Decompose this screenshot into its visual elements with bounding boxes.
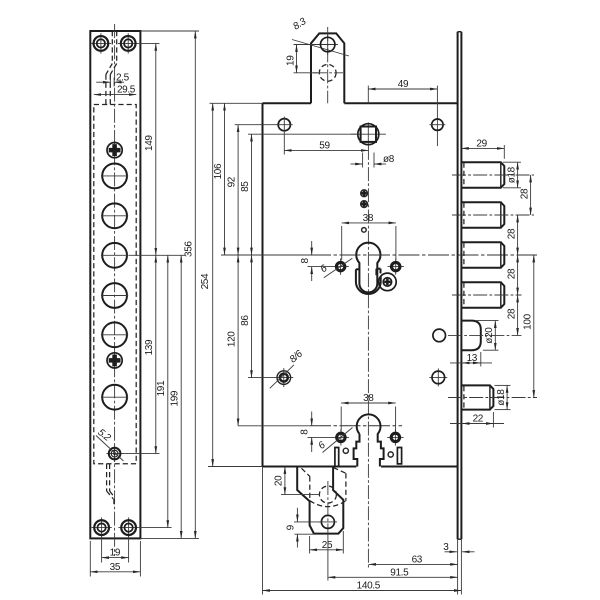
cylinder axis — [310, 254, 537, 256]
svg-text:ø8: ø8 — [383, 154, 395, 165]
phillips screw lower — [109, 354, 121, 366]
dim 86 — [251, 255, 253, 378]
dim 100 — [533, 255, 535, 398]
bottom tab hole — [321, 515, 334, 528]
svg-text:22: 22 — [473, 414, 484, 425]
leader 6 upper — [324, 258, 353, 278]
top tab outline — [311, 33, 344, 103]
lower bolt centerline — [448, 397, 537, 399]
euro cup outline — [356, 268, 360, 270]
bottom tab hidden circle — [319, 486, 336, 503]
ext line hole top-left — [235, 124, 279, 126]
svg-text:149: 149 — [144, 135, 155, 151]
top tab hidden circle — [319, 64, 336, 81]
dim 35 — [89, 541, 91, 577]
bolt 2 centerline — [452, 214, 534, 216]
svg-text:19: 19 — [285, 55, 296, 66]
dim 25 — [309, 536, 311, 554]
dim 3 — [445, 551, 457, 553]
latch bolt — [462, 321, 481, 351]
ext body left down — [262, 467, 264, 595]
ext backplate right down — [460, 539, 462, 594]
euro cylinder hole — [356, 243, 380, 293]
dim 106 — [224, 103, 226, 255]
dim dia18 upper — [503, 161, 521, 163]
svg-text:59: 59 — [319, 141, 330, 152]
lower euro hole — [354, 414, 384, 466]
screw hole bottom-left — [91, 527, 111, 529]
svg-text:ø18: ø18 — [506, 166, 517, 183]
lower euro ext left — [238, 425, 310, 427]
latch centerline — [448, 334, 522, 336]
spindle follower — [351, 133, 386, 135]
body left edge — [262, 103, 264, 466]
svg-text:29.5: 29.5 — [117, 84, 136, 95]
hole A2 — [102, 203, 127, 228]
slot right — [397, 448, 401, 464]
small hole near slot right — [388, 452, 393, 457]
svg-text:8: 8 — [300, 258, 311, 264]
ext line plate bottom — [140, 537, 199, 539]
body hole top-left — [278, 119, 290, 131]
svg-text:140.5: 140.5 — [357, 581, 381, 592]
svg-text:91.5: 91.5 — [390, 567, 409, 578]
svg-text:199: 199 — [170, 390, 181, 406]
dim 59 — [284, 149, 368, 151]
hole A3 — [102, 243, 127, 268]
small hole pair upper — [361, 191, 366, 196]
dim 49 — [367, 86, 369, 104]
ext tab hole down — [327, 530, 329, 581]
svg-text:86: 86 — [240, 315, 251, 326]
leader 6 lower — [323, 428, 353, 453]
svg-text:13: 13 — [467, 353, 478, 364]
ext backplate left down — [457, 539, 459, 594]
spindle ext line left — [248, 133, 358, 135]
dim 8 lower — [311, 412, 313, 426]
svg-text:20: 20 — [274, 475, 285, 486]
bottom tab hidden outline — [302, 468, 310, 476]
bolt 4 — [462, 282, 504, 308]
svg-text:28: 28 — [506, 228, 517, 239]
screw hole 5.2 — [106, 453, 122, 455]
hole left of latch — [433, 329, 446, 342]
dim 92 — [237, 125, 239, 255]
hole A6 — [102, 385, 127, 410]
leader 8.3 — [292, 40, 349, 57]
dim 140.5 — [263, 590, 462, 592]
dim 28 a — [530, 175, 532, 215]
dim dia18 lower — [495, 384, 511, 386]
svg-text:106: 106 — [213, 163, 224, 179]
bolt 3 — [462, 242, 504, 268]
dim 63 — [369, 563, 458, 565]
slot left — [335, 448, 339, 467]
svg-text:100: 100 — [523, 313, 534, 329]
lower euro axis — [310, 425, 402, 427]
bottom tab centerline — [327, 481, 329, 530]
faceplate vertical centerline — [114, 24, 116, 556]
body bottom ext line — [208, 466, 263, 468]
leader 8/6 — [270, 365, 294, 389]
euro ext line left — [221, 254, 310, 256]
body top edge — [263, 102, 312, 104]
svg-text:38: 38 — [363, 213, 374, 224]
hole below latch — [429, 376, 447, 378]
small hole near slot left — [343, 448, 348, 453]
leader 5.2 — [96, 436, 124, 462]
dim 38 upper — [341, 226, 343, 261]
top tab hole — [318, 44, 338, 46]
dim 9 — [294, 521, 321, 523]
svg-text:28: 28 — [519, 188, 530, 199]
body hole top-right — [432, 119, 443, 130]
svg-text:8: 8 — [300, 429, 311, 435]
svg-text:28: 28 — [506, 268, 517, 279]
hole A1 — [102, 164, 127, 189]
bottom tab outline — [297, 467, 343, 534]
ext line flank upper — [308, 266, 334, 268]
svg-text:191: 191 — [156, 380, 167, 396]
dim 28 c — [517, 255, 519, 295]
flank hole lower-right — [387, 436, 403, 438]
spindle centerline down — [367, 146, 369, 568]
ext line plate top — [140, 30, 199, 32]
dim 2.5 — [109, 78, 111, 87]
flank hole lower-left — [333, 436, 349, 438]
ext line flank lower — [308, 436, 334, 438]
faceplate outline — [90, 31, 140, 538]
svg-text:49: 49 — [398, 79, 409, 90]
top tab centerline — [327, 27, 329, 103]
faceplate bottom screw ext line — [139, 527, 172, 529]
screw hole top-left — [91, 42, 111, 44]
body top ext line — [210, 102, 263, 104]
svg-text:85: 85 — [240, 181, 251, 192]
bolt 1 centerline — [452, 174, 534, 176]
hole A4 — [102, 283, 127, 308]
dim 22 — [450, 423, 504, 425]
bottom slot hidden lines — [106, 464, 108, 491]
backplate edge view — [457, 32, 459, 540]
bolt 1 — [462, 162, 504, 188]
dim 19 bottom — [101, 536, 103, 563]
cylinder screw phillips — [384, 279, 391, 286]
dim 199 — [180, 255, 182, 538]
svg-text:92: 92 — [227, 176, 238, 187]
dim 149 — [155, 43, 157, 255]
dim 13 — [480, 352, 482, 367]
svg-text:120: 120 — [227, 331, 238, 347]
phillips screw upper — [109, 144, 121, 156]
faceplate inner dashed rectangle — [94, 105, 136, 464]
body bottom edge — [263, 466, 357, 468]
dim 29.5 — [94, 94, 136, 96]
svg-text:29: 29 — [476, 138, 487, 149]
svg-text:63: 63 — [412, 555, 423, 566]
ext line screw 5.2 — [121, 453, 160, 455]
dim 8 upper — [311, 241, 313, 255]
svg-text:9: 9 — [286, 524, 297, 530]
screw hole bottom-right — [118, 527, 138, 529]
screw hole top-right — [118, 42, 138, 44]
dim 28 d — [517, 295, 519, 335]
dim 356 — [194, 31, 196, 538]
hole A5 — [102, 322, 127, 347]
svg-text:35: 35 — [110, 562, 121, 573]
dim dia20 — [476, 320, 499, 322]
svg-text:3: 3 — [443, 542, 449, 553]
dim 19 tab — [294, 44, 320, 46]
dim 85 — [251, 134, 253, 255]
svg-text:38: 38 — [363, 393, 374, 404]
dim 29 — [503, 145, 505, 159]
hole 8/6 — [274, 377, 293, 379]
bolt 4 centerline — [452, 294, 522, 296]
dim 91.5 — [328, 576, 458, 578]
svg-text:19: 19 — [110, 548, 121, 559]
svg-text:2.5: 2.5 — [116, 73, 130, 84]
svg-text:ø18: ø18 — [496, 389, 507, 406]
bolt 2 — [462, 202, 504, 228]
svg-text:28: 28 — [506, 308, 517, 319]
ext line hole A3 — [129, 254, 186, 256]
cylinder screw boss — [379, 273, 397, 291]
lower bolt — [462, 385, 493, 409]
faceplate top screw ext line — [139, 42, 160, 44]
dim 254 — [212, 103, 214, 466]
dim 139 — [155, 255, 157, 453]
svg-text:139: 139 — [144, 339, 155, 355]
tiny hole — [362, 228, 367, 233]
ext line lower bolt tip — [492, 412, 494, 428]
dim 38 lower — [340, 407, 342, 432]
dim 28 b — [517, 215, 519, 255]
dim 120 — [237, 255, 239, 426]
flank hole upper-left — [332, 266, 348, 268]
top slot hidden lines — [111, 31, 113, 64]
ext line hole 8/6 — [248, 377, 275, 379]
svg-text:25: 25 — [322, 540, 333, 551]
dim dia8 — [362, 153, 364, 168]
dim 191 — [167, 255, 169, 527]
svg-text:356: 356 — [184, 241, 195, 257]
svg-text:ø20: ø20 — [484, 327, 495, 344]
flank hole upper-right — [388, 266, 404, 268]
svg-text:254: 254 — [200, 273, 211, 289]
dim 20 — [281, 494, 320, 496]
